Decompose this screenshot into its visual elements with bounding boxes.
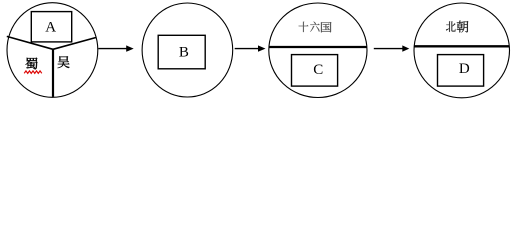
svg-text:A: A (45, 19, 56, 35)
svg-text:D: D (459, 61, 470, 77)
label Northern Dynasties char Bei (446, 21, 456, 31)
box B (158, 35, 205, 69)
divider: left diagonal in ellipse 1 (7, 36, 53, 49)
circle: Western Jin (ellipse 2) (142, 3, 233, 97)
label Wu (58, 56, 70, 68)
arrow 1 shaft (98, 48, 127, 50)
svg-text:B: B (179, 44, 189, 60)
box C (292, 55, 338, 87)
label Sixteen Kingdoms char Guo (321, 22, 331, 32)
divider: horizontal chord in ellipse 3 (269, 46, 367, 48)
arrow 1 head (126, 45, 134, 51)
label Sixteen Kingdoms char Shi (299, 22, 309, 32)
circle: Eastern Jin / Sixteen Kingdoms (ellipse 3) (269, 3, 367, 98)
arrow 3 shaft (374, 48, 403, 50)
red wavy spellcheck underline under Shu (24, 71, 42, 73)
arrow 2 head (258, 45, 266, 51)
box A (31, 12, 71, 42)
label Sixteen Kingdoms char Liu (310, 22, 319, 32)
divider: horizontal chord in ellipse 4 (414, 45, 509, 47)
divider: right diagonal in ellipse 1 (53, 37, 96, 49)
label Northern Dynasties char Chao (457, 21, 469, 33)
circle: Three Kingdoms (ellipse 1) (7, 3, 98, 98)
svg-text:C: C (313, 62, 323, 78)
arrow 2 shaft (235, 48, 259, 50)
arrow 3 head (402, 45, 409, 51)
divider: vertical line in ellipse 1 (52, 49, 54, 97)
box D (438, 55, 484, 87)
label Shu (25, 58, 37, 70)
circle: Northern and Southern Dynasties (ellipse 4) (414, 3, 510, 98)
